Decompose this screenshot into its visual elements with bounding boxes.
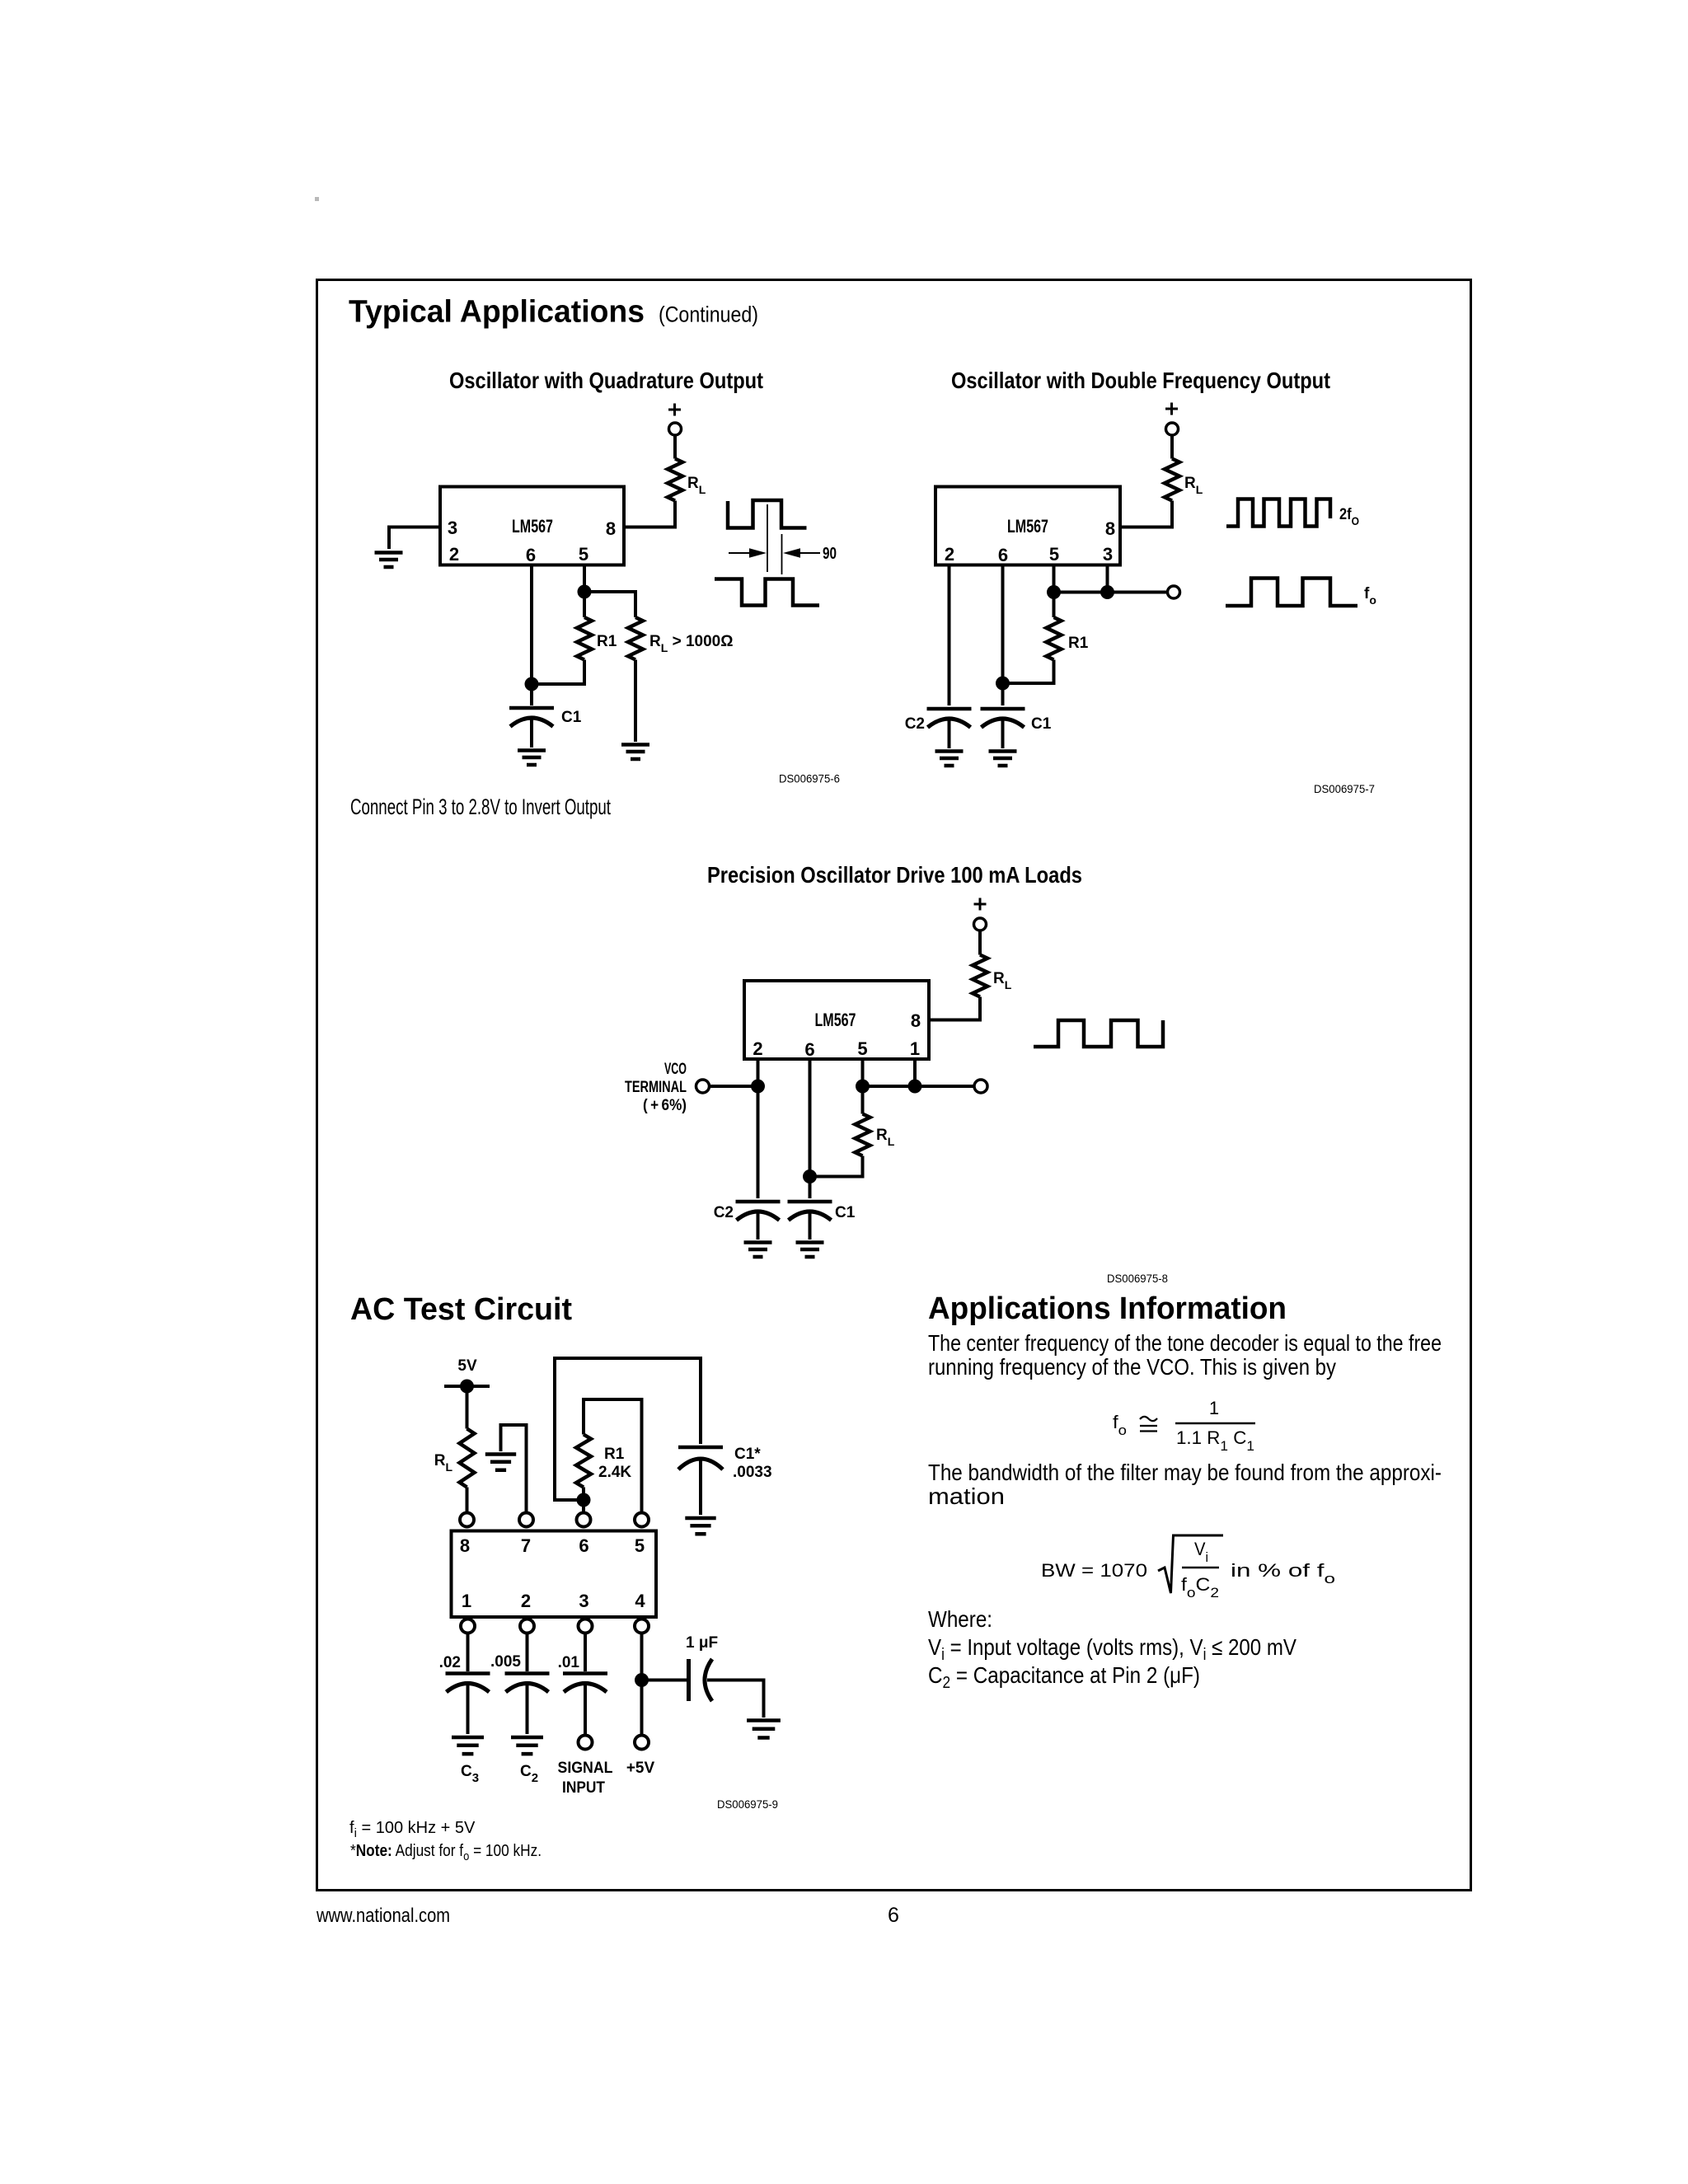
svg-text:.0033: .0033	[733, 1464, 772, 1481]
IC DIP-8 box AC	[452, 1531, 657, 1618]
junction pin2 3	[751, 1080, 765, 1094]
svg-text:Precision Oscillator Drive 100: Precision Oscillator Drive 100 mA Loads	[707, 862, 1082, 888]
wire supply to RL 2	[1170, 435, 1174, 459]
svg-text:SIGNAL: SIGNAL	[558, 1760, 613, 1777]
wire to output terminal 3	[863, 1085, 975, 1088]
junction pin6 2	[996, 677, 1010, 691]
output terminal 2	[1168, 586, 1180, 598]
svg-text:.01: .01	[558, 1654, 580, 1671]
wire pin3 to signal input	[584, 1633, 587, 1672]
svg-text:2: 2	[449, 544, 459, 565]
svg-text:Applications Information: Applications Information	[928, 1291, 1287, 1326]
wire RL to pin 8 2	[1120, 501, 1172, 527]
svg-text:3: 3	[448, 518, 457, 538]
svg-text:( + 6%): ( + 6%)	[643, 1097, 687, 1114]
svg-text:+5V: +5V	[626, 1760, 655, 1777]
wire C2 to ground 3	[757, 1213, 760, 1240]
svg-text:fi = 100 kHz + 5V: fi = 100 kHz + 5V	[349, 1819, 476, 1840]
ground right of coupling cap	[747, 1721, 781, 1738]
svg-text:DS006975-6: DS006975-6	[779, 773, 840, 785]
junction pin5 2	[1047, 585, 1061, 599]
svg-text:5: 5	[857, 1038, 867, 1059]
svg-text:1: 1	[462, 1591, 471, 1611]
svg-text:90: 90	[823, 545, 837, 563]
svg-text:C1: C1	[1031, 715, 1052, 733]
junction under R1 AC	[577, 1493, 591, 1507]
wire cap to signal terminal	[584, 1685, 587, 1736]
wire pin 6 down	[530, 565, 533, 685]
pin 6 terminal AC	[577, 1513, 591, 1527]
svg-text:6: 6	[998, 545, 1008, 565]
waveform pin8 output	[728, 500, 807, 528]
svg-text:5V: 5V	[457, 1357, 477, 1375]
wire pin5 node to R1 top	[583, 592, 586, 617]
wire supply to RL 3	[978, 930, 982, 955]
node V+ supply 2	[1165, 403, 1178, 415]
IC U1 LM567	[440, 487, 624, 565]
svg-text:Vi = Input voltage (volts rms): Vi = Input voltage (volts rms), Vi ≤ 200…	[928, 1634, 1296, 1664]
wire pin 7 to ground AC	[501, 1425, 527, 1513]
capacitor C1 3	[788, 1200, 832, 1204]
ground under C3	[452, 1737, 484, 1754]
svg-text:6: 6	[526, 545, 536, 565]
ground at pin 7 AC	[485, 1455, 516, 1470]
wire pin 2 down to C2 3	[757, 1059, 760, 1198]
wire C1 to ground 2	[1001, 720, 1005, 748]
pin 3 terminal bottom AC	[579, 1619, 593, 1633]
ground under C1 2	[989, 752, 1017, 766]
resistor RL2 load	[628, 617, 643, 659]
svg-text:in % of fo: in % of fo	[1231, 1560, 1335, 1586]
resistor R1 2.4K	[576, 1435, 591, 1488]
wire pin5 node to RL2	[584, 592, 635, 617]
VCO input terminal	[696, 1080, 710, 1093]
svg-text:6: 6	[579, 1535, 588, 1556]
wire pin 2 to C2	[948, 565, 951, 706]
svg-text:2: 2	[521, 1591, 531, 1611]
pin 7 terminal AC	[519, 1513, 533, 1527]
svg-text:TERMINAL: TERMINAL	[625, 1079, 687, 1096]
svg-text:C1*: C1*	[734, 1446, 761, 1463]
phase marker lines	[767, 504, 782, 574]
pin 4 terminal bottom AC	[635, 1619, 649, 1633]
svg-text:RL: RL	[876, 1127, 895, 1148]
wire node to output terminal 2	[1054, 591, 1168, 594]
svg-text:8: 8	[911, 1010, 921, 1031]
svg-text:Oscillator with Quadrature Out: Oscillator with Quadrature Output	[449, 368, 763, 393]
svg-text:8: 8	[460, 1535, 470, 1556]
svg-text:3: 3	[1103, 544, 1113, 565]
wire junction to coupling cap	[642, 1679, 687, 1682]
wire C1 to ground 3	[809, 1213, 812, 1240]
svg-text:6: 6	[804, 1039, 814, 1060]
wire pin4 down	[640, 1633, 644, 1736]
svg-text:C1: C1	[835, 1204, 856, 1221]
radical sign	[1158, 1535, 1223, 1593]
capacitor C2	[927, 707, 972, 711]
svg-text:*Note: Adjust for fo = 100 kHz: *Note: Adjust for fo = 100 kHz.	[350, 1842, 542, 1863]
wire pin 5 down 3	[861, 1059, 865, 1086]
svg-text:Oscillator with Double Frequen: Oscillator with Double Frequency Output	[951, 368, 1330, 393]
resistor R1	[577, 617, 592, 659]
svg-text:8: 8	[606, 518, 616, 539]
junction pin1 3	[908, 1080, 922, 1094]
svg-text:2.4K: 2.4K	[598, 1464, 631, 1481]
dimension arrow right	[798, 552, 820, 554]
svg-text:3: 3	[579, 1591, 588, 1611]
wire R1 bottom to junction	[532, 660, 584, 685]
wire junction to pin 6 AC	[582, 1500, 585, 1513]
svg-text:mation: mation	[928, 1483, 1005, 1509]
wire R1 to pin6 junction 2	[1003, 660, 1054, 684]
svg-text:DS006975-8: DS006975-8	[1107, 1272, 1168, 1285]
page border frame	[317, 280, 1471, 1891]
wire 5V to RL AC	[466, 1386, 469, 1429]
ground at pin 3	[375, 553, 403, 568]
+5V terminal	[635, 1736, 649, 1750]
junction pin3 2	[1100, 585, 1114, 599]
svg-text:8: 8	[1105, 518, 1115, 539]
svg-text:1.1 R1 C1: 1.1 R1 C1	[1176, 1427, 1254, 1454]
svg-text:R1: R1	[604, 1446, 625, 1463]
svg-text:R1: R1	[1068, 635, 1089, 652]
svg-text:The bandwidth of the filter ma: The bandwidth of the filter may be found…	[928, 1460, 1442, 1485]
capacitor C3 value .02	[446, 1671, 490, 1675]
signal input terminal	[579, 1736, 593, 1750]
svg-text:(Continued): (Continued)	[659, 302, 758, 327]
wire RL2 to ground	[634, 660, 637, 743]
svg-text:INPUT: INPUT	[562, 1779, 605, 1797]
svg-text:.02: .02	[439, 1654, 461, 1671]
wire R1 top to pin 5 AC	[584, 1399, 642, 1513]
svg-text:4: 4	[635, 1591, 645, 1611]
pin 2 terminal bottom AC	[520, 1619, 534, 1633]
svg-text:RL: RL	[1184, 475, 1203, 496]
dimension arrow left	[729, 552, 752, 554]
waveform fo	[1226, 579, 1357, 607]
ground under C1 3	[796, 1243, 824, 1258]
IC U2 LM567	[935, 487, 1120, 565]
capacitor C1	[530, 684, 533, 705]
svg-text:1 μF: 1 μF	[686, 1634, 718, 1652]
svg-text:1: 1	[910, 1038, 920, 1059]
resistor RL 2	[1165, 459, 1179, 501]
waveform 2fo	[1226, 499, 1330, 527]
svg-text:C2 = Capacitance at Pin 2 (μF): C2 = Capacitance at Pin 2 (μF)	[928, 1662, 1200, 1692]
svg-text:RL: RL	[687, 475, 706, 496]
wire C2 to ground AC	[526, 1685, 529, 1734]
svg-text:RL > 1000Ω: RL > 1000Ω	[649, 633, 733, 654]
ground under C2	[935, 752, 964, 766]
svg-text:LM567: LM567	[1007, 516, 1048, 537]
svg-text:Vi: Vi	[1194, 1539, 1208, 1565]
svg-text:The center frequency of the to: The center frequency of the tone decoder…	[928, 1330, 1442, 1356]
wire pin2 to C2 AC	[526, 1633, 529, 1672]
5V supply rail	[444, 1385, 490, 1388]
ground under RL2	[621, 745, 649, 760]
svg-text:LM567: LM567	[815, 1010, 856, 1030]
svg-text:C3: C3	[461, 1763, 479, 1785]
wire C1* to ground	[699, 1460, 702, 1515]
svg-text:C1: C1	[561, 709, 582, 726]
svg-text:R1: R1	[597, 633, 617, 650]
node V+ supply 3	[974, 898, 987, 911]
output terminal 3	[974, 1080, 987, 1093]
node V+ supply	[668, 404, 681, 416]
svg-text:2: 2	[945, 544, 954, 565]
svg-text:foC2: foC2	[1181, 1574, 1219, 1601]
resistor R1 2	[1053, 593, 1056, 618]
svg-text:DS006975-7: DS006975-7	[1314, 783, 1375, 795]
wire pin 1 down 3	[913, 1059, 917, 1086]
svg-text:C2: C2	[714, 1204, 734, 1221]
ground under C2 AC	[511, 1737, 543, 1754]
svg-text:5: 5	[579, 544, 588, 565]
wire supply to RL	[673, 435, 677, 459]
wire RL to pin 8 AC	[466, 1488, 469, 1514]
capacitor signal input .01	[563, 1671, 607, 1675]
svg-text:Typical Applications: Typical Applications	[349, 295, 645, 330]
wire pin 5 down 2	[1053, 565, 1056, 593]
wire pin 5 down	[583, 565, 586, 593]
svg-text:C2: C2	[520, 1763, 538, 1785]
svg-text:7: 7	[521, 1535, 531, 1556]
resistor RL	[668, 459, 682, 501]
svg-text:5: 5	[635, 1535, 645, 1556]
ground under C1	[518, 751, 546, 766]
wire C1 to ground	[530, 719, 533, 748]
svg-text:C2: C2	[905, 715, 925, 733]
waveform quadrature output	[715, 579, 819, 606]
svg-text:running frequency of the VCO.: running frequency of the VCO. This is gi…	[928, 1354, 1336, 1380]
svg-text:.005: .005	[490, 1653, 521, 1671]
junction pin6 3	[803, 1169, 817, 1183]
resistor RL upper 3	[973, 955, 987, 997]
svg-text:BW = 1070: BW = 1070	[1041, 1560, 1147, 1581]
feedback loop wire pin6 node to C1	[555, 1358, 701, 1500]
svg-text:2fO: 2fO	[1339, 506, 1359, 527]
wire RL to pin 8	[624, 501, 675, 527]
svg-text:fo: fo	[1364, 585, 1376, 607]
ground under C2 3	[744, 1243, 772, 1258]
IC U3 LM567	[744, 981, 929, 1059]
capacitor C2 value .005	[505, 1671, 550, 1675]
svg-text:6: 6	[888, 1904, 899, 1927]
svg-text:VCO: VCO	[664, 1061, 687, 1078]
svg-text:www.national.com: www.national.com	[316, 1905, 450, 1927]
wire pin1 to C3	[467, 1633, 470, 1672]
wire RL to pin 8 3	[929, 997, 980, 1020]
capacitor C1*	[678, 1446, 723, 1450]
pin 8 terminal AC	[460, 1513, 474, 1527]
wire RL lower to pin6 junction 3	[810, 1156, 863, 1177]
svg-text:2: 2	[753, 1038, 762, 1059]
svg-text:LM567: LM567	[512, 516, 553, 537]
svg-text:Where:: Where:	[928, 1606, 992, 1632]
svg-text:5: 5	[1049, 544, 1059, 565]
coupling capacitor 1 uF	[687, 1659, 691, 1701]
wire pin 6 down to C1 3	[809, 1059, 812, 1198]
wire C3 to ground	[467, 1685, 470, 1734]
wire C2 to ground 2	[948, 720, 951, 748]
junction pin5/R1/RL2	[578, 585, 592, 599]
wire VCO terminal to pin 2	[710, 1085, 758, 1088]
wire pin 3 to ground	[389, 527, 440, 550]
svg-text:fo: fo	[1113, 1412, 1127, 1438]
wire pin 3 down 2	[1106, 565, 1109, 593]
junction pin4 coupling cap	[635, 1673, 649, 1687]
svg-text:1: 1	[1209, 1398, 1219, 1418]
resistor RL lower 3	[861, 1086, 865, 1114]
junction pin6/C1/R1	[525, 677, 539, 691]
svg-text:Connect Pin 3 to 2.8V to Inver: Connect Pin 3 to 2.8V to Invert Output	[350, 794, 611, 819]
svg-text:RL: RL	[434, 1452, 453, 1474]
ground under C1*	[685, 1518, 715, 1534]
svg-text:RL: RL	[993, 970, 1012, 991]
capacitor C2 3	[736, 1200, 781, 1204]
svg-text:DS006975-9: DS006975-9	[717, 1798, 778, 1811]
pin 1 terminal bottom AC	[461, 1619, 475, 1633]
pin 5 terminal AC	[635, 1513, 649, 1527]
waveform output 3	[1034, 1020, 1163, 1047]
resistor RL AC	[460, 1429, 475, 1488]
wire pin 6 down 2	[1001, 565, 1005, 706]
junction pin5 3	[856, 1080, 870, 1094]
svg-text:AC Test Circuit: AC Test Circuit	[350, 1292, 572, 1327]
wire coupling cap to ground	[707, 1680, 764, 1718]
capacitor C1 2	[981, 707, 1025, 711]
